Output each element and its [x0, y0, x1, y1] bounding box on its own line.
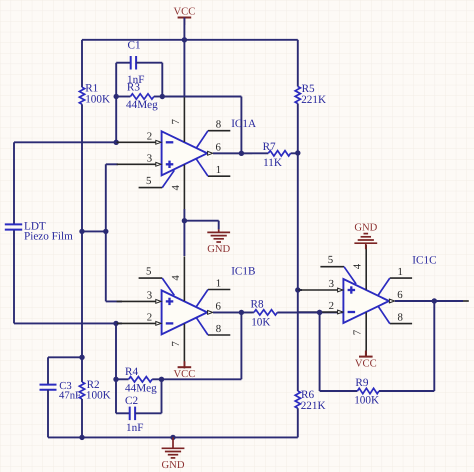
wire outputC feedback drop	[433, 301, 435, 391]
svg-text:100K: 100K	[86, 390, 111, 402]
wire R8 overlay	[277, 311, 319, 313]
IC1A plus sign	[166, 163, 174, 165]
wire feedback to output	[162, 96, 241, 98]
svg-text:10K: 10K	[251, 317, 270, 329]
wire C1 branch right	[136, 62, 162, 64]
wire feedbackB to output	[162, 378, 242, 380]
IC1B pin 3	[117, 300, 156, 302]
resistor R4	[129, 377, 153, 382]
svg-text:44Meg: 44Meg	[125, 383, 157, 395]
IC1B pin 4	[183, 256, 185, 301]
IC1C pin 2	[298, 311, 337, 313]
wire R3 row right	[154, 96, 162, 98]
wire pin2 horizontal	[14, 141, 116, 143]
svg-text:100K: 100K	[85, 93, 110, 105]
wire R2 to bottom rail	[81, 399, 83, 437]
wire LDT bottom	[13, 230, 15, 323]
svg-text:8: 8	[216, 323, 221, 335]
wire R9 row left	[320, 390, 358, 392]
wire pin2B vertical	[115, 323, 117, 413]
svg-text:R8: R8	[251, 299, 264, 311]
IC1A pin 8	[208, 130, 230, 132]
svg-text:3: 3	[147, 152, 152, 164]
svg-text:4: 4	[170, 185, 182, 191]
resistor R2	[79, 382, 84, 399]
svg-text:VCC: VCC	[174, 6, 196, 17]
IC1A pin 2	[117, 141, 156, 143]
IC1C pin 1	[390, 277, 412, 279]
wire R7 to rail	[291, 152, 298, 154]
svg-text:C2: C2	[125, 395, 138, 407]
IC1A minus sign	[166, 141, 174, 143]
IC1B pin 8	[208, 334, 230, 336]
svg-text:44Meg: 44Meg	[126, 99, 158, 111]
op-amp IC1B body	[162, 290, 208, 334]
wire C2 branch right	[135, 412, 161, 414]
svg-text:4: 4	[352, 263, 364, 269]
resistor R7	[268, 151, 290, 156]
piezo sensor LDT	[5, 223, 22, 225]
node R1 bias tee	[79, 229, 84, 234]
wire right rail lower	[297, 408, 299, 437]
wire bias row	[82, 230, 106, 232]
svg-text:7: 7	[170, 341, 182, 347]
wire R9 row right	[379, 390, 434, 392]
wire R8 to pin2C	[277, 311, 343, 313]
IC1A pin 1	[208, 175, 230, 177]
svg-text:1: 1	[397, 266, 402, 278]
svg-text:8: 8	[397, 311, 402, 323]
IC1C minus sign	[348, 311, 356, 313]
op-amp IC1C body	[343, 279, 389, 323]
svg-text:IC1A: IC1A	[231, 118, 256, 130]
wire right rail upper	[297, 40, 299, 87]
IC1A pin 4	[183, 165, 185, 210]
svg-text:2: 2	[147, 130, 152, 142]
capacitor C2	[129, 407, 131, 421]
svg-text:5: 5	[146, 175, 151, 187]
IC1C plus sign	[348, 289, 356, 291]
IC1A pin 7	[183, 97, 185, 142]
svg-text:Piezo Film: Piezo Film	[24, 230, 73, 242]
ground GND IC1C	[365, 243, 367, 249]
svg-text:7: 7	[352, 329, 364, 335]
wire gnd tap	[184, 220, 218, 222]
node R4 left	[113, 377, 118, 382]
svg-text:GND: GND	[162, 460, 185, 471]
svg-text:R9: R9	[355, 377, 368, 389]
svg-text:6: 6	[215, 300, 221, 312]
wire VCC stub	[183, 18, 185, 97]
IC1B pin 6 output	[213, 311, 252, 313]
svg-text:R6: R6	[301, 389, 314, 401]
svg-text:6: 6	[397, 289, 403, 301]
power VCC IC1B	[183, 362, 185, 368]
svg-text:47nF: 47nF	[59, 390, 81, 402]
svg-text:3: 3	[329, 278, 334, 290]
wire C1 branch left	[115, 63, 117, 143]
wire pin3A stub	[106, 163, 118, 165]
wire output row A	[213, 152, 268, 154]
wire left vertical	[81, 104, 83, 382]
svg-text:3: 3	[147, 290, 152, 302]
resistor R6	[295, 391, 300, 408]
power VCC top	[178, 17, 192, 19]
wire pin3 vertical	[105, 164, 107, 301]
IC1A pin 6 output	[213, 152, 252, 154]
svg-text:221K: 221K	[301, 94, 326, 106]
node R2/C3 tee	[79, 355, 84, 360]
capacitor C1	[130, 56, 132, 70]
wire output row B	[213, 311, 254, 313]
resistor R9	[357, 388, 379, 393]
svg-text:221K: 221K	[301, 400, 326, 412]
wire pin2B to IC1B	[116, 322, 122, 324]
IC1A pin 3	[117, 163, 156, 165]
IC1C pin 4	[365, 245, 367, 290]
svg-text:IC1B: IC1B	[231, 265, 255, 277]
IC1B pin 5	[139, 277, 163, 279]
wire bottom rail	[48, 436, 298, 438]
op-amp IC1A body	[162, 131, 208, 175]
wire IC1A pin4 to gnd net	[183, 209, 185, 256]
wire C3 bottom	[47, 390, 49, 438]
wire pin3B stub	[106, 300, 122, 302]
IC1A pin 5	[139, 187, 163, 189]
IC1B minus sign	[166, 322, 174, 324]
svg-text:5: 5	[328, 254, 333, 266]
svg-text:11K: 11K	[263, 157, 282, 169]
svg-text:4: 4	[170, 275, 182, 281]
wire R4 row right	[152, 378, 161, 380]
svg-text:7: 7	[170, 119, 182, 125]
svg-text:VCC: VCC	[355, 358, 377, 369]
IC1C pin 6 output	[395, 300, 434, 302]
svg-text:100K: 100K	[354, 395, 379, 407]
svg-text:8: 8	[216, 119, 221, 131]
IC1C pin 5	[320, 266, 344, 268]
IC1C pin 3	[298, 289, 337, 291]
svg-text:R7: R7	[263, 141, 276, 153]
svg-text:1: 1	[216, 277, 221, 289]
wire C2 branch left	[116, 412, 130, 414]
IC1C pin 7	[365, 312, 367, 357]
svg-text:2: 2	[329, 300, 334, 312]
svg-text:1nF: 1nF	[126, 422, 143, 434]
ground GND bottom	[172, 437, 174, 448]
svg-text:5: 5	[146, 266, 151, 278]
resistor R1	[79, 87, 84, 104]
resistor R5	[295, 87, 300, 104]
resistor R3	[130, 94, 154, 99]
node pin2B tee	[113, 321, 118, 326]
svg-text:GND: GND	[207, 244, 230, 255]
svg-text:1: 1	[216, 164, 221, 176]
wire top rail	[82, 39, 298, 41]
capacitor C3	[40, 384, 57, 386]
wire C3 tap	[48, 356, 82, 358]
IC1B plus sign	[166, 300, 174, 302]
IC1B pin 1	[208, 289, 230, 291]
wire pin3C	[298, 289, 302, 291]
wire left vertical R1 feed	[81, 40, 83, 87]
IC1B pin 7	[183, 324, 185, 369]
svg-text:GND: GND	[354, 223, 377, 234]
resistor R8	[254, 310, 278, 315]
svg-text:C1: C1	[128, 40, 141, 52]
wire R3 row left	[116, 96, 130, 98]
svg-text:IC1C: IC1C	[412, 255, 436, 267]
wire R9 drop	[319, 312, 321, 391]
wire right rail middle	[297, 104, 299, 392]
wire LDT drop	[13, 142, 15, 223]
svg-text:2: 2	[147, 312, 152, 324]
wire R4 row left	[116, 378, 129, 380]
svg-text:R4: R4	[125, 366, 138, 378]
wire output row C	[395, 300, 463, 302]
svg-text:6: 6	[215, 141, 221, 153]
power VCC IC1C	[365, 351, 367, 357]
ground GND mid	[218, 229, 220, 232]
IC1B pin 2	[117, 322, 156, 324]
svg-text:R3: R3	[127, 82, 140, 94]
IC1C pin 8	[390, 323, 412, 325]
